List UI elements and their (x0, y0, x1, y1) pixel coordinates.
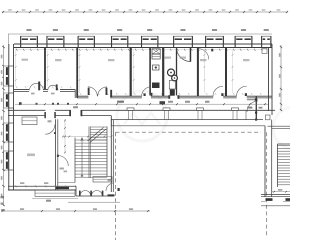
right wing bottom line (261, 205, 290, 207)
door D4 arc (room 1.04) (142, 87, 151, 96)
west exterior wall outer (8, 44, 10, 190)
east exterior wall inner (268, 48, 270, 112)
window W1 in north wall (21, 36, 38, 44)
right vertical dimension line (280, 45, 282, 111)
room label L1 (22, 59, 29, 61)
kitchen unit K2 (152, 54, 160, 59)
bath washbasin circles (168, 69, 175, 76)
door D7 arc (corridor east end) (247, 101, 258, 112)
corridor south wall plinth line east part (111, 125, 265, 127)
door opening corridor to stair hall (71, 110, 81, 117)
corridor north wall step (74, 89, 76, 98)
corridor north wall west segment (14, 88, 75, 90)
window W6 in north wall (174, 36, 193, 44)
interior dimension string below north wall (15, 49, 268, 51)
threshold SE (108, 194, 115, 196)
corridor dimension line (15, 103, 268, 105)
stair hall dimension string (63, 136, 112, 138)
corridor south wall bottom face east part (111, 119, 263, 121)
vestibule partition at corridor east end (256, 96, 257, 120)
entrance door arcs (80, 191, 91, 197)
door D6 arc (room 1.08) (237, 86, 247, 96)
door openings in corridor north wall (29, 89, 43, 93)
left wing south wall outer (8, 189, 76, 191)
kitchen dark appliance (152, 83, 160, 89)
pilasters on corridor south wall (127, 108, 134, 110)
right wing south wall (261, 194, 290, 196)
bath door jambs (168, 95, 170, 99)
left vertical dimension line (3, 45, 5, 206)
window W8 in north wall (235, 36, 252, 44)
pilaster corner east (266, 115, 271, 120)
west exterior wall inner (13, 44, 15, 190)
corner marks bottom-left (1, 196, 5, 198)
partition walls of north wing (44, 48, 46, 90)
door D3 double arc (room 1.03) (88, 87, 97, 96)
window W2 in north wall (47, 36, 64, 44)
watermark circle right edge (273, 107, 315, 149)
door D5 arc (room 1.07) (213, 86, 223, 96)
right wing thresholds (266, 198, 273, 201)
room label L6 (165, 57, 172, 59)
window WW3 in west wall (4, 123, 9, 142)
entrance outer step line (68, 201, 120, 203)
big room east wall (55, 119, 57, 190)
window W4 in north wall (111, 36, 128, 44)
left wing south wall inner (8, 185, 76, 187)
north exterior wall inner face (14, 47, 272, 49)
window W3 in north wall (78, 36, 95, 44)
door D8 opening in corridor south wall (45, 110, 54, 117)
right wing west wall (264, 126, 266, 197)
entrance bay south wall (76, 195, 113, 197)
landing step line (58, 182, 75, 184)
door arc in room 1.07 top corner (198, 49, 209, 60)
bottom dimension line (2, 210, 150, 212)
right stair dim line (272, 191, 290, 193)
room label L2 (55, 59, 62, 61)
room interior vertical dimension strings (15, 51, 17, 87)
right stair treads (278, 145, 291, 147)
door D9 arc (stair hall west) (58, 156, 69, 167)
door D8 arc (big room from corridor) (45, 125, 55, 135)
right wing step lines (261, 201, 266, 203)
east exterior wall outer (271, 44, 273, 115)
door D2 arc (room 1.02) (48, 85, 58, 90)
corner shower quarter arc (177, 48, 191, 62)
site outline left (8, 34, 10, 44)
WC fixture (169, 81, 175, 90)
kitchen unit K1 (152, 49, 160, 54)
dashed outline horizontal (116, 131, 262, 133)
corridor south wall inner west part (8, 115, 111, 117)
room label L7 (180, 57, 187, 59)
window W5 in north wall (141, 36, 158, 44)
corner furniture in room 1.09 (262, 49, 267, 54)
overall top dimension line with ticks and figures (2, 11, 288, 13)
room label L4 (200, 59, 207, 61)
window W9 in north wall (262, 36, 272, 44)
corridor south wall top face (8, 109, 275, 111)
right wing north wall stub (268, 125, 291, 127)
window WW4 in west wall (4, 151, 9, 170)
stair S1 (left wing) (74, 138, 76, 183)
dashed outline right vertical (266, 132, 268, 236)
window in south wall (56, 187, 69, 189)
porch steps (35, 190, 75, 196)
window W7 in north wall (206, 36, 224, 44)
kitchen unit K3 small (153, 65, 160, 70)
big room label 1.10 (27, 154, 35, 157)
room label L3 (108, 59, 115, 61)
door D1 arc (room 1.01) (30, 83, 44, 90)
site outline top (8, 33, 272, 35)
ticks on left wing south wall (15, 185, 16, 187)
door arc SE of stair hall (106, 183, 114, 191)
north exterior wall outer face (14, 43, 272, 45)
dashed outline left vertical (115, 132, 117, 240)
furniture rect in big room (22, 117, 37, 125)
window WW1 in west wall (4, 66, 9, 86)
corridor north wall east segment (77, 95, 272, 97)
stair bottom landing (93, 177, 112, 183)
interior tick row above corridor wall (16, 86, 17, 88)
stair hall vertical dimension string (64, 119, 66, 153)
watermark circle center (117, 91, 167, 141)
entrance bay west wall (75, 186, 77, 196)
left wing east wall (stair hall) (110, 116, 112, 193)
window WW2 in west wall (4, 93, 9, 108)
room label L5 (243, 59, 250, 61)
